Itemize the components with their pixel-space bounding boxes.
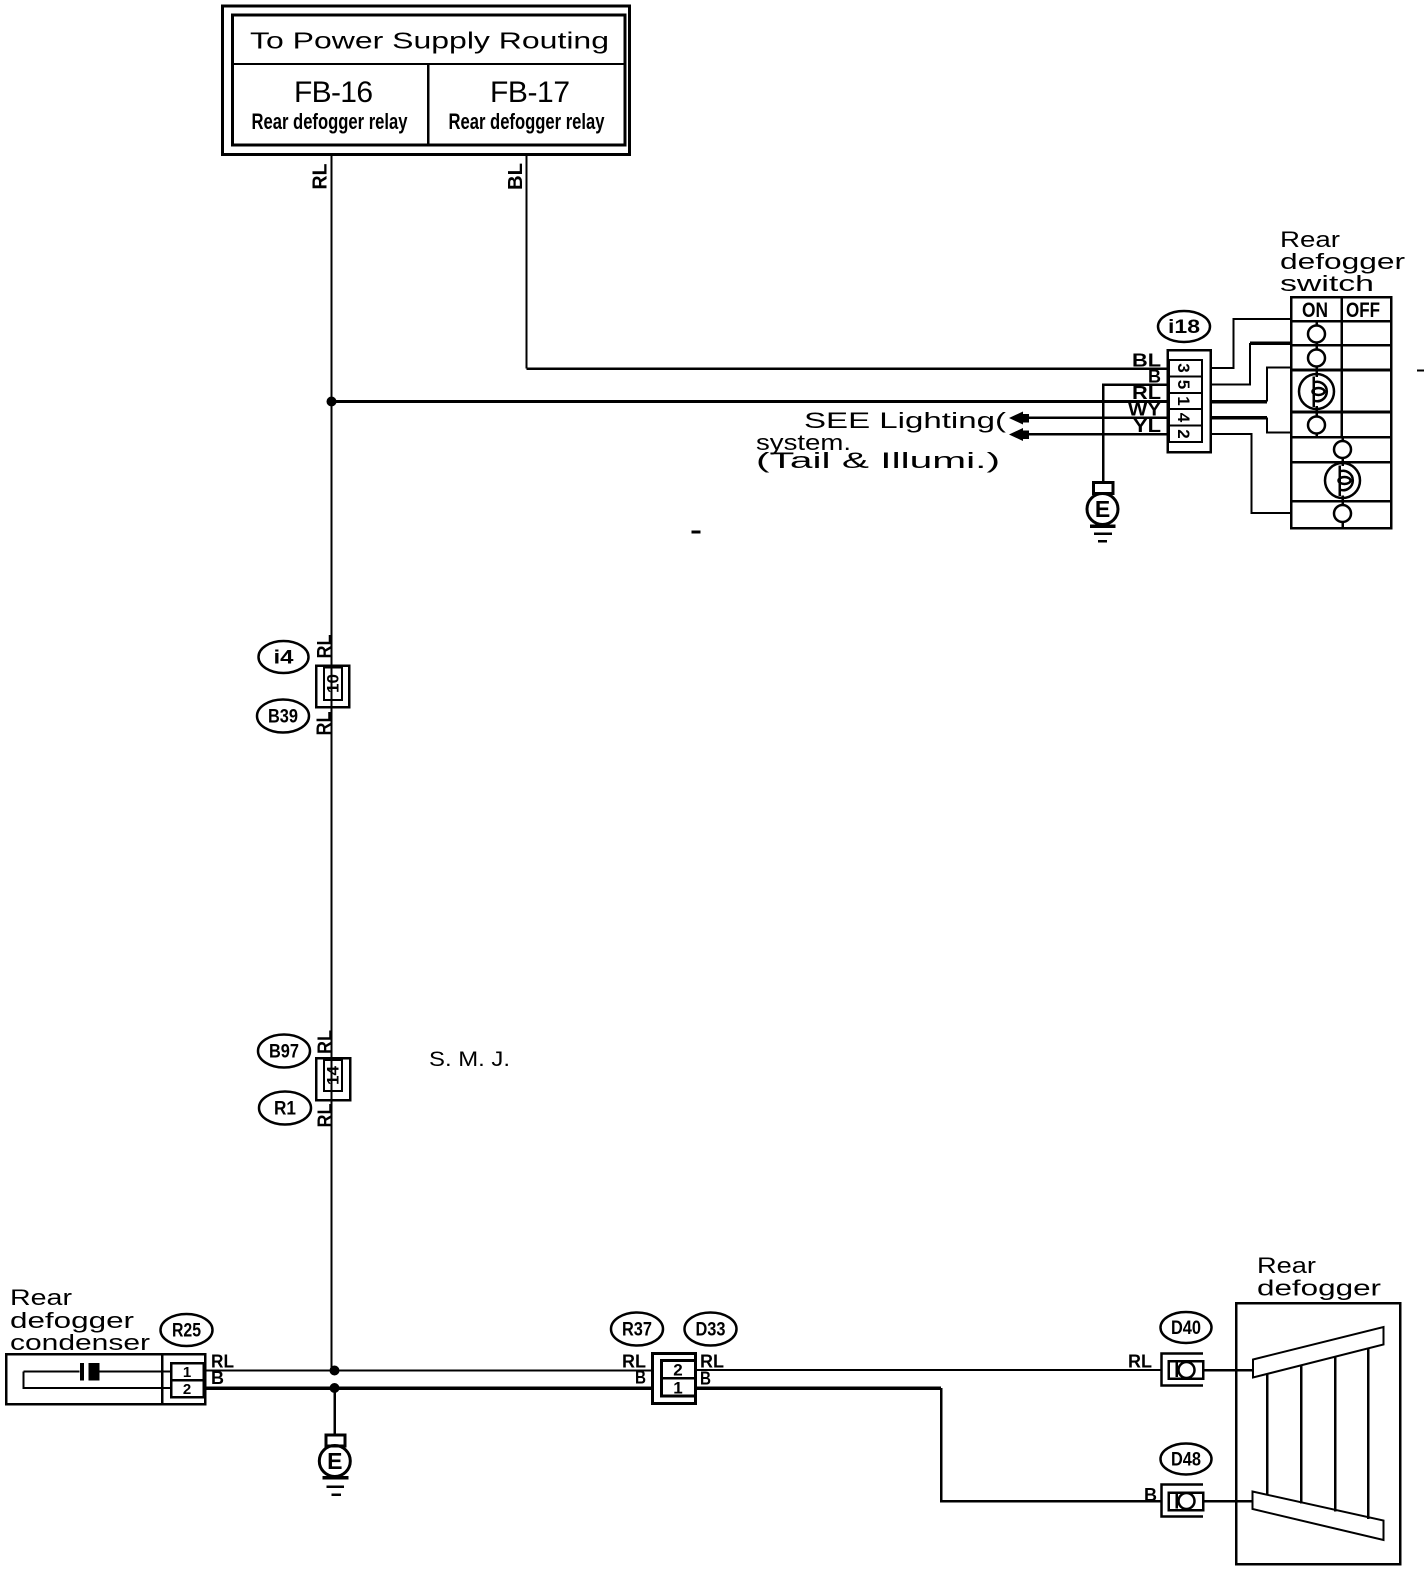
svg-text:E: E [327, 1448, 342, 1474]
svg-text:RL: RL [315, 1104, 337, 1128]
svg-text:defogger: defogger [1257, 1276, 1382, 1301]
svg-text:YL: YL [1133, 416, 1161, 436]
svg-text:BL: BL [505, 163, 527, 190]
rear defogger unit [1236, 1303, 1400, 1564]
wire B from i18 pin5 to ground [1103, 385, 1169, 484]
svg-text:2: 2 [1174, 429, 1193, 438]
rear defogger label [1257, 1253, 1382, 1301]
switch contact chain lower [1341, 458, 1344, 467]
wire D40 to defogger grid [1203, 1369, 1253, 1372]
power supply routing box [223, 6, 630, 155]
lamp illumination [1325, 463, 1360, 498]
ground E bottom [319, 1435, 350, 1495]
lamp indicator ON [1299, 374, 1334, 409]
stray dot [692, 531, 701, 534]
contact circle row5 [1308, 417, 1325, 434]
svg-text:D48: D48 [1171, 1450, 1201, 1471]
grid element 1 [1266, 1374, 1269, 1496]
svg-text:B39: B39 [268, 707, 298, 728]
wire RL R37 to D40 [696, 1369, 1162, 1371]
svg-text:To Power Supply Routing: To Power Supply Routing [250, 28, 609, 54]
svg-text:1: 1 [673, 1379, 682, 1398]
wire BL horizontal to i18 pin3 [527, 367, 1170, 370]
svg-text:Rear defogger relay: Rear defogger relay [449, 109, 606, 134]
wire BL vertical from FB-17 [526, 155, 528, 369]
contact circle row3 [1308, 350, 1325, 367]
connector D48 [1161, 1444, 1212, 1517]
rear defogger condenser [6, 1354, 205, 1404]
svg-text:4: 4 [1174, 413, 1193, 423]
wire RL condenser to R37 [204, 1370, 653, 1372]
svg-text:RL: RL [314, 635, 336, 659]
grid element 3 [1334, 1357, 1337, 1512]
wire i18 pin4 to switch [1210, 416, 1267, 420]
rear defogger switch label [1280, 227, 1406, 296]
svg-text:B97: B97 [269, 1042, 299, 1063]
svg-text:FB-16: FB-16 [294, 76, 373, 109]
svg-text:D40: D40 [1171, 1318, 1201, 1339]
svg-text:B: B [700, 1369, 711, 1389]
svg-text:5: 5 [1174, 380, 1193, 389]
svg-text:2: 2 [183, 1381, 191, 1398]
wire YL arrow to lighting system [1025, 433, 1169, 436]
rear defogger condenser label [10, 1285, 151, 1355]
wire D48 to defogger grid [1203, 1500, 1253, 1503]
svg-text:14: 14 [324, 1065, 343, 1085]
grid element 2 [1300, 1366, 1303, 1504]
svg-text:(Tail & Illumi.): (Tail & Illumi.) [756, 448, 1000, 473]
connector i4/B39 (SMJ) [257, 635, 349, 736]
node junction B bottom [330, 1383, 340, 1393]
svg-text:2: 2 [673, 1361, 682, 1380]
note SEE Lighting system [756, 408, 1007, 473]
svg-text:switch: switch [1280, 271, 1374, 296]
svg-text:Rear: Rear [10, 1285, 73, 1310]
svg-text:Rear defogger relay: Rear defogger relay [252, 109, 409, 134]
wire i18 pin2 to switch [1210, 434, 1291, 513]
wire B condenser to R37 [204, 1386, 653, 1390]
svg-text:ON: ON [1302, 299, 1328, 322]
connector i18 [1158, 311, 1211, 452]
svg-text:R25: R25 [172, 1321, 201, 1342]
svg-text:Rear: Rear [1257, 1253, 1317, 1278]
svg-text:RL: RL [1128, 1352, 1152, 1372]
wire RL vertical from FB-16 [331, 155, 333, 1371]
svg-text:1: 1 [183, 1364, 191, 1381]
capacitor C [80, 1363, 84, 1381]
svg-text:R1: R1 [274, 1099, 296, 1120]
switch contact chain ON [1315, 321, 1318, 326]
contact circle row6 [1334, 441, 1351, 458]
wire i18 pin5 to switch [1210, 343, 1250, 385]
wire i18 pin3 to switch [1210, 319, 1291, 368]
svg-text:E: E [1095, 496, 1110, 522]
svg-text:i4: i4 [274, 648, 295, 669]
svg-text:RL: RL [315, 1030, 337, 1054]
rear defogger switch table [1291, 297, 1391, 528]
svg-text:RL: RL [310, 164, 332, 190]
svg-text:1: 1 [1174, 396, 1193, 405]
wire B branch to ground [333, 1388, 336, 1435]
wire B R37 to D48 [696, 1386, 942, 1390]
svg-text:FB-17: FB-17 [490, 76, 570, 109]
connector B97/R1 (SMJ) [258, 1030, 350, 1128]
node junction RL [327, 397, 337, 407]
wire WY arrow to lighting system [1025, 416, 1169, 419]
grid element 4 [1367, 1349, 1370, 1519]
ground E near switch [1087, 483, 1118, 542]
grid bottom bar [1253, 1492, 1384, 1541]
svg-text:OFF: OFF [1346, 299, 1380, 322]
connector R37/D33 [611, 1313, 737, 1404]
svg-text:RL: RL [314, 712, 336, 736]
wire i18 pin1 to switch [1210, 400, 1267, 404]
wire RL horizontal to i18 pin1 [332, 400, 1170, 403]
svg-text:10: 10 [324, 674, 343, 693]
svg-text:i18: i18 [1168, 317, 1200, 338]
connector R25 [161, 1314, 213, 1346]
grid top bar [1253, 1327, 1384, 1378]
contact circle row2 [1308, 326, 1325, 343]
svg-text:B: B [1144, 1485, 1157, 1505]
connector D40 [1161, 1312, 1212, 1386]
node junction RL bottom [330, 1366, 340, 1376]
svg-text:R37: R37 [622, 1320, 652, 1341]
svg-text:D33: D33 [696, 1320, 726, 1341]
svg-text:3: 3 [1174, 363, 1193, 372]
svg-text:S. M. J.: S. M. J. [429, 1048, 510, 1071]
contact circle row8 [1334, 505, 1351, 522]
svg-text:B: B [635, 1368, 646, 1388]
svg-text:condenser: condenser [10, 1330, 151, 1355]
stray mark right edge [1417, 370, 1424, 372]
